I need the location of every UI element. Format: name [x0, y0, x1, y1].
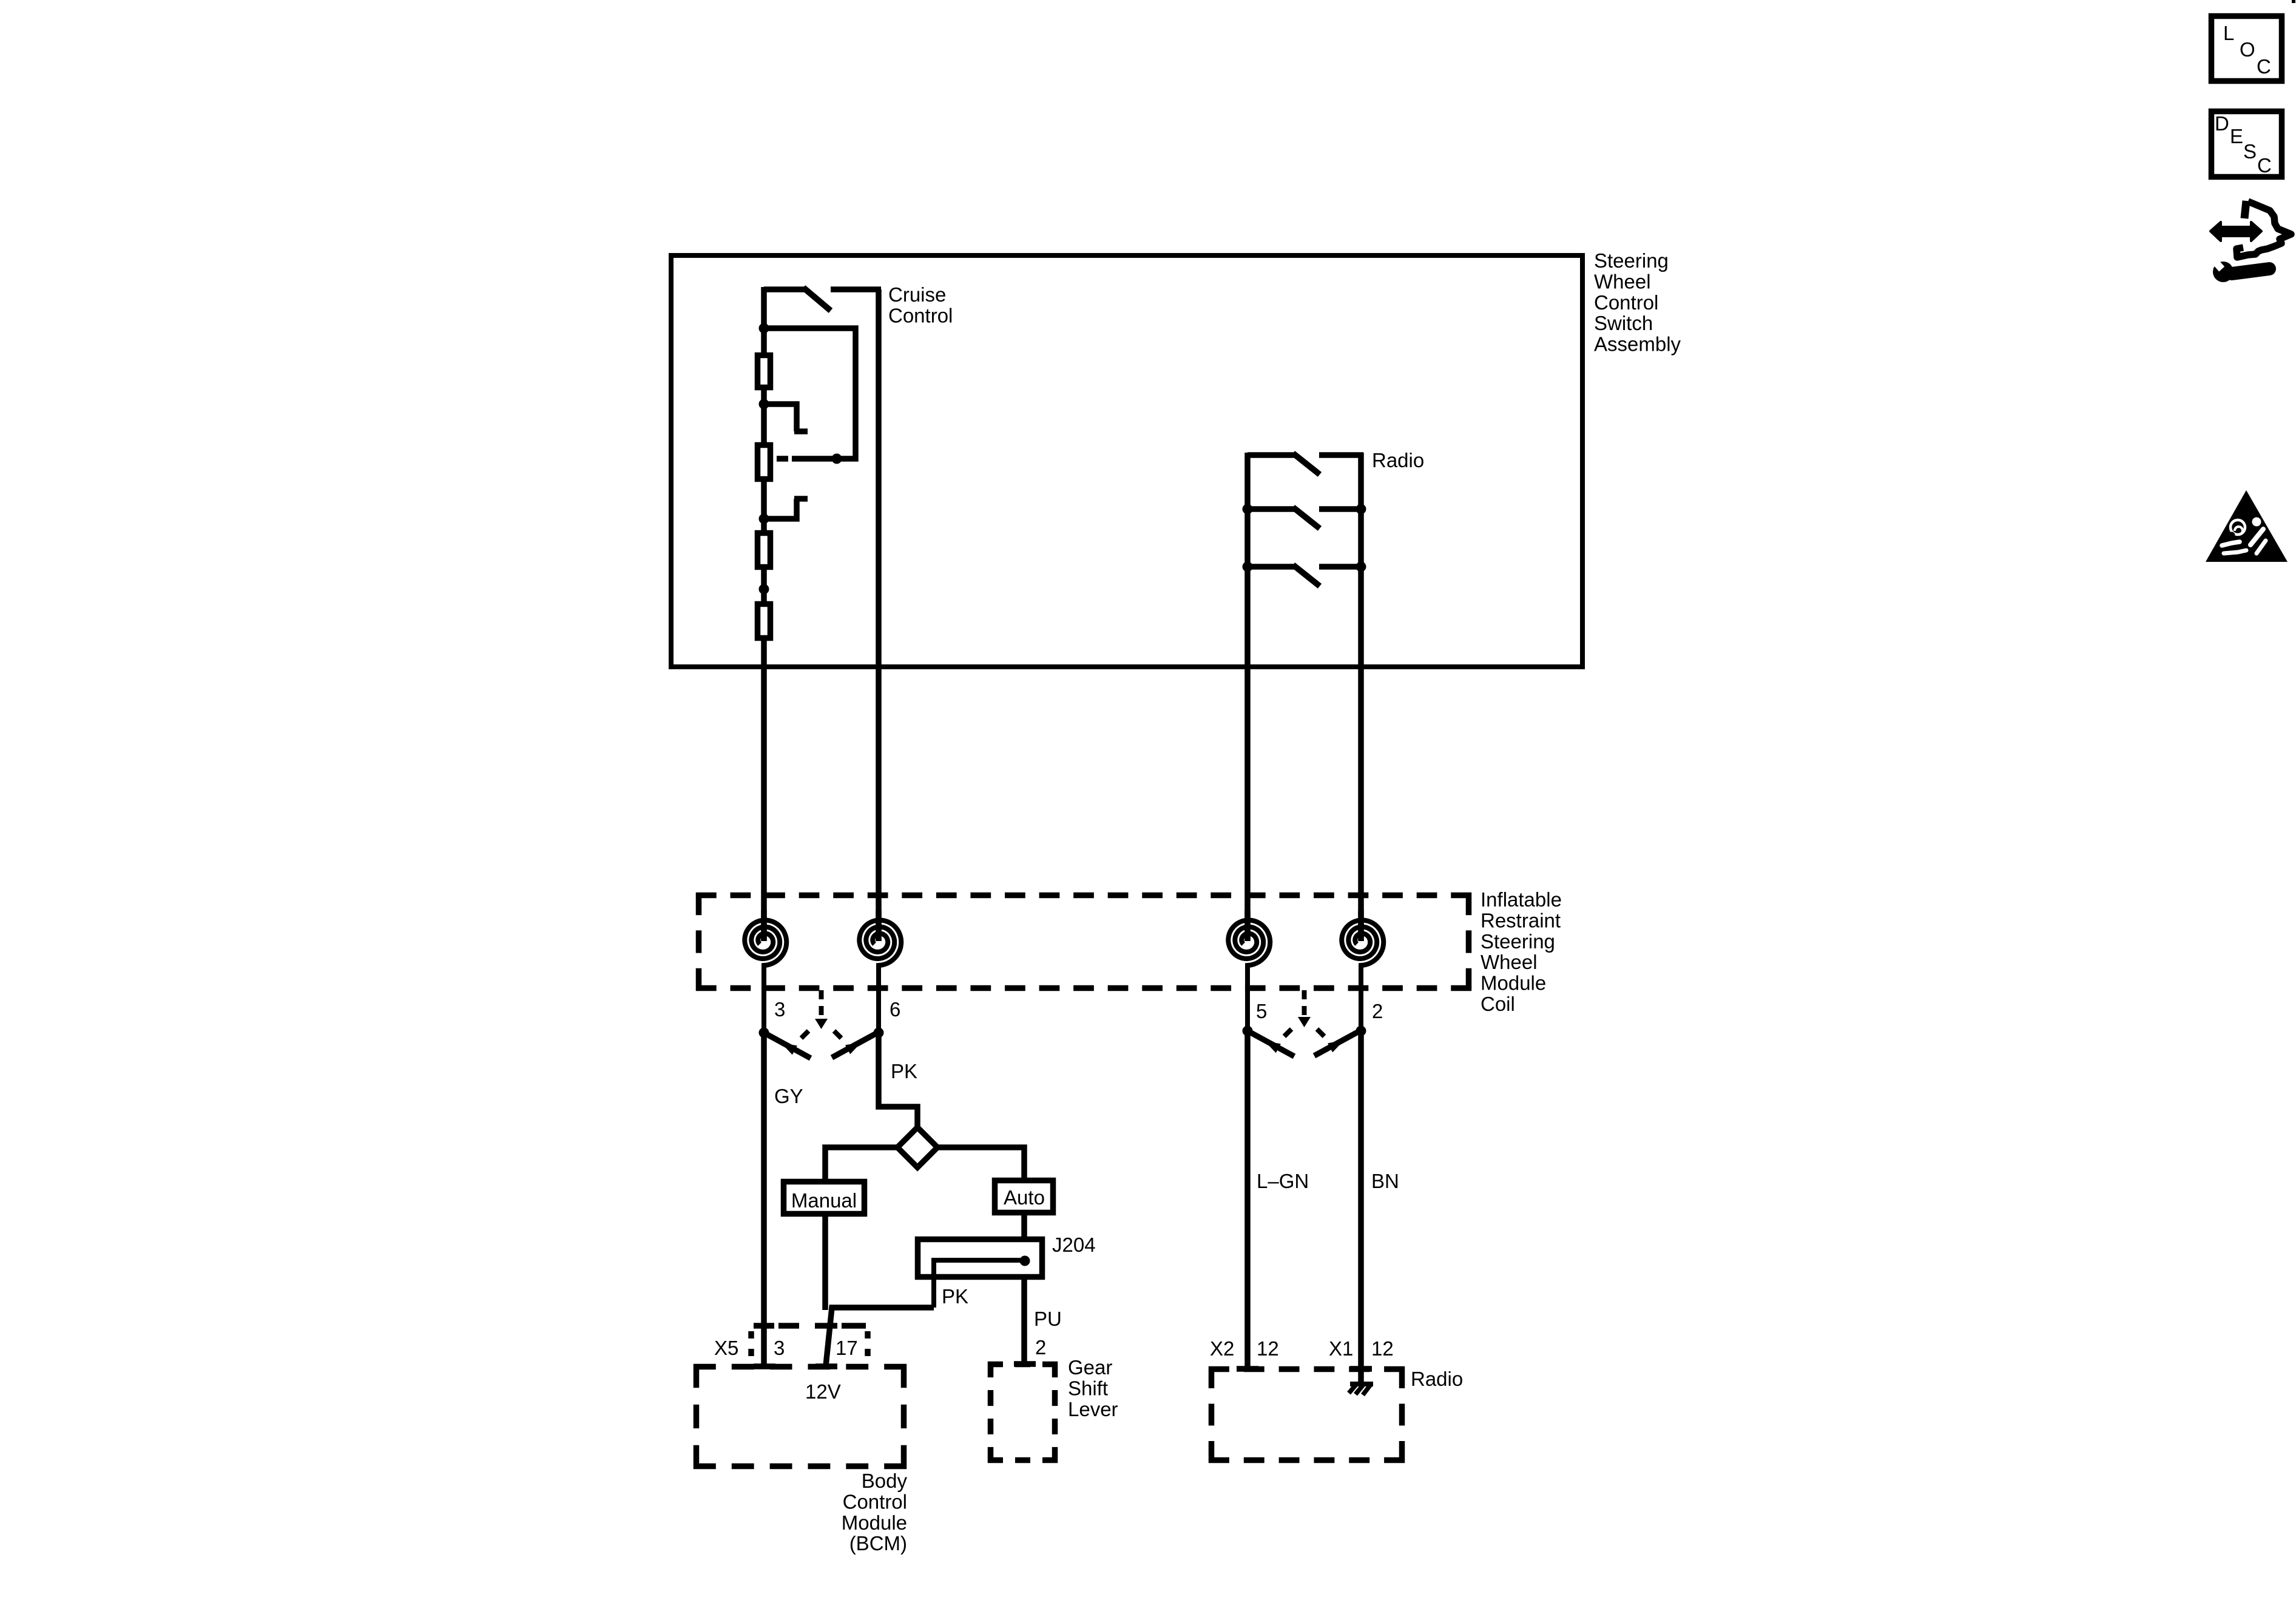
coil: SIR coil winding 3 — [1228, 920, 1270, 1031]
svg-text:2: 2 — [1035, 1336, 1046, 1359]
node: junction below cruise switch — [759, 323, 769, 334]
icon: LOC box — [2212, 16, 2282, 81]
terminal tick: BCM pin 3 — [754, 1363, 775, 1369]
switch: radio switch 2 — [1248, 506, 1295, 512]
box: Gear Shift Lever (dashed) — [988, 1362, 1003, 1368]
svg-text:BN: BN — [1371, 1170, 1399, 1192]
svg-text:Lever: Lever — [1068, 1398, 1118, 1420]
svg-text:3: 3 — [774, 1337, 785, 1359]
connector: mating arm right — [1314, 1030, 1361, 1056]
svg-text:Module: Module — [1481, 972, 1546, 994]
coil: SIR coil winding 4 — [1342, 920, 1383, 1031]
connector: junction dot left — [1243, 1026, 1253, 1036]
connector: junction dot right — [874, 1028, 884, 1038]
wire: inner loop to wiper — [764, 328, 856, 459]
resistor R1 — [758, 356, 771, 388]
box: Auto — [995, 1181, 1053, 1213]
svg-text:Auto: Auto — [1004, 1186, 1045, 1209]
resistor R4 — [758, 604, 771, 638]
wire: between R2 and R3 — [761, 482, 767, 530]
svg-text:O: O — [2240, 38, 2255, 61]
svg-text:Steering: Steering — [1481, 930, 1555, 953]
svg-text:Wheel: Wheel — [1594, 270, 1651, 292]
wire: diamond to Auto — [937, 1147, 1024, 1180]
box: Manual — [784, 1182, 865, 1214]
svg-text:X5: X5 — [714, 1337, 738, 1359]
svg-text:Shift: Shift — [1068, 1377, 1108, 1399]
wire: Manual output down — [822, 1217, 828, 1310]
wire: radio right bus — [1358, 453, 1364, 941]
connector: dashed diagonals — [1285, 1029, 1292, 1036]
node: junction on wiper line — [832, 454, 842, 464]
splice pack: J204 box — [918, 1240, 1042, 1277]
svg-text:Control: Control — [1594, 291, 1658, 314]
node: junction switch 2 right — [1356, 504, 1366, 515]
svg-text:12: 12 — [1371, 1337, 1394, 1360]
svg-text:L–GN: L–GN — [1257, 1170, 1309, 1192]
svg-text:Cruise: Cruise — [888, 283, 946, 306]
resistor R3 — [758, 533, 771, 567]
svg-text:L: L — [2223, 22, 2234, 44]
connector: mating arm right — [832, 1032, 879, 1058]
connector: dashed center line — [1302, 990, 1307, 1016]
svg-text:Manual: Manual — [791, 1189, 857, 1212]
svg-text:C: C — [2257, 154, 2272, 177]
svg-text:S: S — [2243, 140, 2257, 163]
wire: diamond to Manual — [825, 1147, 897, 1181]
coil: SIR coil winding 2 — [859, 920, 901, 1032]
wire: Auto output through J204 to Gear Shift Lever pin 2 — [1021, 1215, 1027, 1365]
svg-text:6: 6 — [890, 998, 900, 1021]
switch contact hook 2 (resume/accel) — [764, 499, 797, 519]
svg-text:PK: PK — [942, 1285, 968, 1308]
icon: service information (arrow + part + wrench) — [2210, 222, 2261, 241]
box: Inflatable Restraint Steering Wheel Module Coil (dashed) — [696, 893, 717, 899]
switch: Cruise Control (movable contact) — [764, 286, 805, 292]
wire: PK circuit from pin 6 — [879, 1031, 917, 1130]
svg-text:Steering: Steering — [1594, 249, 1669, 272]
svg-text:12V: 12V — [805, 1380, 841, 1403]
connector: mating arm left — [1248, 1031, 1294, 1056]
connector: junction dot right — [1356, 1026, 1366, 1036]
svg-text:X1: X1 — [1329, 1337, 1353, 1360]
svg-text:E: E — [2230, 125, 2243, 147]
svg-text:Body: Body — [862, 1470, 908, 1492]
svg-text:5: 5 — [1256, 1000, 1267, 1022]
svg-text:C: C — [2257, 55, 2271, 78]
node: junction on J204 bus — [1020, 1256, 1030, 1266]
page corner mark — [2292, 0, 2295, 3]
svg-text:3: 3 — [774, 998, 785, 1021]
node: junction at hook 2 — [759, 514, 769, 524]
svg-text:Inflatable: Inflatable — [1481, 888, 1562, 911]
svg-text:GY: GY — [774, 1085, 803, 1107]
svg-text:Switch: Switch — [1594, 312, 1653, 334]
box: Body Control Module (dashed) — [694, 1364, 716, 1370]
terminal tick: gear shift lever pin 2 — [1014, 1361, 1036, 1367]
box: Steering Wheel Control Switch Assembly outline — [671, 255, 1582, 667]
svg-text:Module: Module — [842, 1511, 907, 1534]
box: Radio (dashed) — [1209, 1366, 1229, 1372]
svg-text:12: 12 — [1257, 1337, 1279, 1360]
node: junction switch 3 right — [1356, 562, 1366, 572]
svg-text:Assembly: Assembly — [1594, 333, 1681, 356]
svg-text:D: D — [2215, 112, 2229, 135]
connector: junction dot left — [759, 1028, 769, 1038]
svg-text:X2: X2 — [1210, 1337, 1234, 1360]
switch: radio switch 1 fixed contact — [1319, 452, 1363, 458]
svg-text:Gear: Gear — [1068, 1356, 1112, 1379]
terminal tick: BCM pin 17 — [815, 1363, 837, 1369]
switch: Cruise Control fixed contact — [831, 286, 881, 292]
svg-text:17: 17 — [836, 1337, 858, 1359]
node: junction between R3 and R4 — [759, 584, 769, 595]
svg-text:Radio: Radio — [1372, 449, 1424, 471]
wire: radio left bus — [1244, 453, 1251, 941]
svg-text:PK: PK — [891, 1060, 917, 1082]
svg-text:PU: PU — [1034, 1308, 1062, 1330]
connector: dashed diagonals — [802, 1031, 809, 1038]
switch: radio switch 3 — [1248, 564, 1295, 570]
connector: dashed center line — [819, 990, 824, 1018]
node: junction switch 2 left — [1243, 504, 1253, 515]
wire: PK jumper from J204 to BCM pin 17 — [826, 1308, 934, 1366]
svg-text:(BCM): (BCM) — [849, 1532, 907, 1555]
svg-text:Control: Control — [888, 304, 953, 326]
wire: J204 internal bus — [934, 1260, 1025, 1308]
svg-text:Coil: Coil — [1481, 993, 1515, 1015]
terminal tick: radio pin X2-12 — [1237, 1366, 1258, 1372]
wire: cruise return down to coil — [876, 289, 882, 941]
connector row: BCM X5 (dashes and ticks) — [754, 1323, 774, 1329]
wire: GY circuit to BCM pin 3 — [761, 1033, 767, 1366]
wire: wiper dash (dashed contact) — [777, 456, 788, 462]
icon: SIR caution triangle — [2206, 490, 2288, 562]
ground: chassis ground inside radio — [1350, 1382, 1373, 1386]
icon: DESC box — [2212, 112, 2282, 177]
connector: mating arm left — [764, 1033, 811, 1058]
wire: between R1 and R2 — [761, 390, 767, 442]
switch: radio switch 1 (movable contact) — [1248, 452, 1295, 458]
svg-text:Restraint: Restraint — [1481, 909, 1561, 931]
svg-text:Control: Control — [843, 1490, 907, 1513]
wire: ladder top segment — [761, 287, 767, 355]
svg-text:Wheel: Wheel — [1481, 951, 1538, 973]
switch contact hook 1 (set/coast) — [766, 404, 797, 431]
wire: BN circuit to radio X1-12 — [1358, 1030, 1364, 1385]
svg-text:2: 2 — [1372, 1000, 1383, 1022]
svg-text:Radio: Radio — [1411, 1368, 1463, 1390]
coil: SIR coil winding 1 — [745, 920, 786, 1033]
wire: cruise signal down to coil — [761, 641, 767, 941]
wire: between R3 and R4 — [761, 570, 767, 601]
terminal tick: radio pin X1-12 — [1350, 1366, 1372, 1372]
svg-text:J204: J204 — [1052, 1234, 1096, 1256]
splice: diamond symbol — [897, 1127, 937, 1167]
node: junction at hook 1 — [759, 399, 769, 410]
wire: L-GN circuit to radio X2-12 — [1244, 1031, 1251, 1369]
resistor R2 — [758, 445, 771, 479]
node: junction switch 3 left — [1243, 562, 1253, 572]
